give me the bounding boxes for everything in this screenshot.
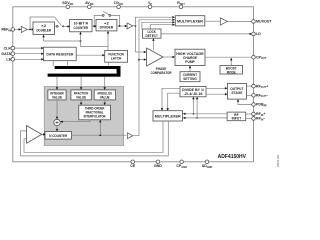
wire mux bottom output 2 to big buffer [21, 121, 169, 156]
wire divide-by inputs from RF lines [192, 97, 198, 119]
wire interpolator to summer [60, 120, 90, 123]
svg-text:RFOUT−: RFOUT− [256, 94, 268, 99]
pin REFIN [1, 28, 14, 33]
wire data register to function latch [76, 54, 105, 56]
summer [54, 119, 60, 125]
svg-text:CLK: CLK [4, 46, 12, 50]
wire lock detect to LD pin [161, 33, 252, 35]
svg-text:-2/-4/-8/-16: -2/-4/-8/-16 [184, 92, 203, 96]
wire N counter out with interpolator clock tap [72, 120, 127, 136]
pin VP [148, 1, 152, 8]
svg-text:VALUE: VALUE [76, 94, 86, 99]
pin CLK [4, 46, 15, 50]
svg-text:COMPARATOR: COMPARATOR [151, 71, 172, 75]
svg-text:VALUE: VALUE [100, 94, 110, 99]
wire buffer out junction [133, 25, 137, 27]
wire summer to N counter [56, 126, 58, 132]
current setting [180, 72, 200, 82]
svg-text:DATA: DATA [2, 52, 12, 56]
svg-text:INTERPOLATOR: INTERPOLATOR [84, 114, 106, 118]
wire control line A to doubler [42, 35, 81, 42]
svg-text:DETECT: DETECT [145, 33, 158, 38]
output stage [227, 83, 246, 99]
doubler switch [55, 17, 62, 27]
multiplexer (muxout) [175, 16, 205, 26]
svg-text:09441-001: 09441-001 [276, 154, 280, 167]
wire buffer to doubler with junction [27, 28, 34, 30]
wire doubler out to R counter [62, 25, 70, 27]
wire mux bottom output 1 to big buffer [24, 121, 163, 152]
bus bar top [55, 66, 121, 69]
function latch [105, 51, 128, 63]
svg-text:PUMP: PUMP [185, 59, 195, 64]
svg-text:STAGE: STAGE [231, 90, 242, 95]
wire RF lines to bottom multiplexer [183, 113, 227, 120]
pin GND [154, 160, 162, 168]
pin CE [130, 160, 136, 168]
fraction value [71, 90, 91, 100]
integer value [48, 90, 66, 100]
x2 doubler [33, 22, 55, 35]
pin RFIN+ [252, 112, 266, 117]
svg-text:MULTIPLEXER: MULTIPLEXER [177, 18, 203, 23]
wire divider out to buffer [117, 25, 128, 27]
pin DVDD [114, 1, 123, 8]
svg-text:MODE: MODE [227, 70, 236, 74]
RF input block [227, 112, 246, 121]
high voltage charge pump [175, 49, 205, 65]
pin RFOUT- [252, 94, 268, 99]
svg-text:COUNTER: COUNTER [74, 25, 89, 30]
wire divide-by wrap to mux top input 2 [167, 93, 181, 111]
svg-text:VALUE: VALUE [52, 94, 62, 99]
lock detect [143, 29, 162, 38]
svg-text:MULTIPLEXER: MULTIPLEXER [155, 113, 181, 118]
pin CPOUT [252, 55, 267, 60]
buffer A4 (N counter input buffer) [27, 126, 42, 144]
wire LE input [14, 58, 43, 60]
third-order fractional interpolator [79, 105, 111, 120]
wire PFD input 1 [135, 51, 146, 53]
modulus value [94, 90, 115, 100]
pin AVDD [85, 1, 94, 8]
wire current setting to charge pump [189, 66, 191, 72]
wire mux input 3 [142, 21, 175, 29]
wire modulus to interpolator [104, 100, 106, 105]
wire mux input 4 from lock detect [150, 24, 175, 30]
wire RFin pins to RF input block [246, 114, 253, 119]
phase comparator [147, 48, 172, 75]
wire lock detect input from PFD [152, 38, 154, 50]
svg-text:ADF4150HV: ADF4150HV [218, 154, 247, 160]
wire divide-by wrap to mux top input 1 [161, 88, 180, 110]
svg-text:N COUNTER: N COUNTER [49, 133, 67, 138]
wire mux input 2 [139, 19, 175, 21]
wire data register drops to bus [53, 61, 67, 66]
pin SDGND [202, 160, 213, 169]
boost mode [220, 66, 243, 75]
svg-text:LE: LE [6, 58, 11, 62]
svg-text:MUXOUT: MUXOUT [256, 20, 272, 24]
wire bus to modulus value [104, 77, 106, 90]
wire DATA input [14, 53, 43, 55]
wire muxout buffer to pin [227, 20, 252, 22]
buffer A5 (N feedback buffer) [127, 133, 132, 139]
svg-text:DATA REGISTER: DATA REGISTER [46, 52, 73, 57]
wire PDB_RF to output stage [237, 99, 253, 104]
bus bar right connector [117, 66, 121, 77]
svg-text:RFIN−: RFIN− [256, 117, 265, 122]
wire N buffer to N vertical [133, 135, 139, 137]
pin LE [6, 58, 14, 62]
svg-text:LATCH: LATCH [111, 56, 122, 61]
wire doubler bypass [30, 17, 54, 29]
wire control arrow to divider and function latch vertical [107, 31, 109, 51]
divide-by-2 divider [96, 19, 117, 31]
svg-text:DOUBLER: DOUBLER [36, 28, 51, 33]
pin CPGND [176, 160, 187, 169]
multiplexer (N input select) [153, 111, 183, 121]
buffer A2 (R path buffer) [127, 23, 133, 29]
wire PFD input 2 [139, 58, 146, 60]
pin RFIN- [252, 117, 266, 122]
svg-text:INPUT: INPUT [232, 117, 242, 121]
wire big buffer to N counter [42, 133, 46, 135]
wire CLK input [14, 47, 43, 49]
buffer A1 (REF_IN input buffer) [21, 26, 27, 32]
wire mux input 1 [135, 16, 175, 18]
wire charge pump to CPout pin [205, 56, 252, 58]
10-bit R counter [70, 19, 92, 31]
divide by 1/2/4/8/16 [180, 87, 206, 97]
pin RSET [177, 1, 185, 8]
svg-text:LD: LD [256, 32, 261, 36]
wire R counter out with bypass junction [92, 25, 97, 27]
wire control arrow to R counter [79, 32, 81, 47]
svg-text:CE: CE [130, 164, 136, 168]
pin SDVDD [62, 1, 73, 8]
pin PDBRF [252, 103, 268, 108]
wire fraction to interpolator [80, 100, 82, 105]
pin RFOUT+ [252, 84, 268, 89]
gray sigma-delta box [44, 87, 124, 146]
wire function latch drop to bus [107, 62, 109, 66]
bus bar bottom [48, 74, 117, 77]
divider bypass wire and switch [94, 11, 119, 26]
svg-text:SETTING: SETTING [183, 77, 197, 81]
buffer A3 (muxout buffer) [220, 18, 227, 25]
wire bus to fraction value [80, 77, 82, 90]
wire divide-by outputs to output stage [206, 87, 228, 95]
wire PFD to charge pump [163, 56, 175, 58]
wire integer to summer [56, 100, 58, 119]
pin LD [252, 32, 261, 36]
wire mux to muxout buffer [205, 20, 220, 22]
wire boost mode to cpout line [230, 58, 232, 66]
wire REF_IN to buffer [14, 28, 21, 30]
N counter [45, 132, 72, 140]
pin MUXOUT [252, 20, 273, 24]
svg-text:DIVIDER: DIVIDER [100, 25, 114, 30]
chip frame border [13, 7, 254, 162]
data register [44, 47, 77, 61]
wire R vertical to PFD [134, 17, 136, 52]
wire output stage to RFout pins [246, 86, 252, 95]
svg-text:GND: GND [154, 164, 162, 168]
wire control line B from function latch [81, 46, 109, 48]
wire bus to integer value [56, 77, 58, 90]
pin DATA [2, 52, 15, 56]
wire N vertical [138, 20, 140, 136]
